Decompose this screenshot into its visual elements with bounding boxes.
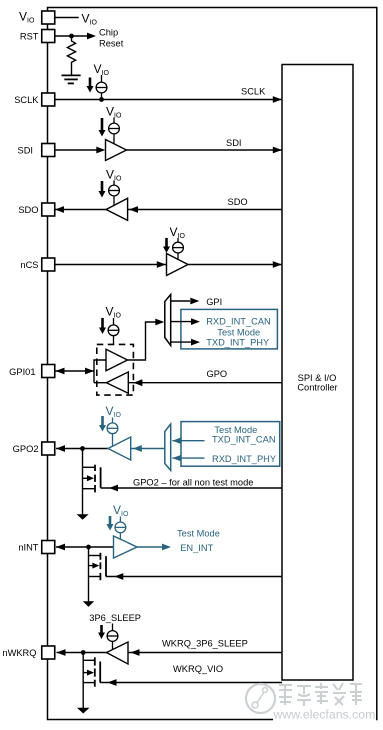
node junction nWKRQ [81, 650, 86, 655]
arrowhead into pin GPI01 [56, 368, 65, 375]
wire TXD_INT_PHY [171, 341, 192, 343]
pin RST [42, 30, 55, 43]
wire SDO from controller [128, 209, 282, 211]
transistor Q1 drain bus [82, 449, 84, 515]
wire GPI [171, 300, 190, 302]
arrowhead into U6 [133, 445, 142, 452]
arrowhead Q1 channel [87, 475, 94, 481]
current source I2 [109, 118, 120, 145]
arrowhead SDO into pin [55, 206, 64, 213]
svg-text:Test Mode: Test Mode [177, 529, 220, 539]
pin nWKRQ [42, 646, 55, 659]
arrowhead SCLK into controller [273, 96, 282, 103]
wire nWKRQ pin to buffer [57, 652, 107, 654]
node junction GPO2 [80, 446, 85, 451]
pin nINT [42, 541, 55, 554]
arrowhead SDI into controller [273, 147, 282, 154]
svg-text:nINT: nINT [18, 543, 38, 553]
buffer U4 [167, 254, 189, 276]
wire mux M2 to buffer U6 [131, 448, 165, 450]
svg-text:SDI: SDI [18, 145, 34, 155]
wire buffer input bus [94, 360, 106, 383]
svg-text:WKRQ_VIO: WKRQ_VIO [173, 664, 223, 674]
svg-text:GPI: GPI [206, 297, 222, 307]
arrowhead into buffer bus [85, 368, 94, 375]
arrowhead on gate wire [109, 485, 118, 492]
svg-text:Test Mode: Test Mode [217, 328, 260, 338]
buffer U7 (teal) [114, 536, 138, 558]
wire GPI01 bidirectional [56, 370, 95, 372]
svg-text:www.elecfans.com: www.elecfans.com [273, 708, 376, 722]
arrowhead EN_INT [162, 544, 171, 551]
current direction arrow I4 [165, 238, 168, 247]
arrowhead into buffer U3 [129, 206, 138, 213]
pin GPI01 [42, 365, 55, 378]
mux M1 [165, 295, 171, 346]
wire WKRQ_3P6_SLEEP [128, 652, 282, 654]
buffer U3 [106, 198, 128, 220]
buffer U5a [106, 349, 128, 370]
wire VIO pin to label [55, 17, 79, 19]
svg-text:Chip: Chip [99, 28, 118, 38]
wire WKRQ_VIO gate from controller [100, 682, 282, 684]
transistor Q1 [83, 465, 101, 493]
buffer U6 (teal) [108, 437, 131, 460]
svg-text:Controller: Controller [297, 383, 337, 393]
wire RST to chip reset [55, 35, 89, 37]
ground for Q1 [77, 514, 89, 520]
node junction SCLK [99, 97, 104, 102]
wire GPO2 gate from controller [101, 487, 282, 489]
svg-text:RXD_INT_PHY: RXD_INT_PHY [212, 454, 276, 464]
watermark chinese characters [279, 683, 362, 706]
svg-text:3P6_SLEEP: 3P6_SLEEP [89, 613, 141, 623]
current source I5 [108, 318, 119, 344]
blue box test mode GPO2 [181, 422, 280, 467]
resistor R1 [67, 36, 75, 75]
arrowhead into pin GPO2 [56, 445, 65, 452]
arrowhead GPO into dashed box [133, 379, 142, 386]
SPI & I/O Controller box U1 [282, 65, 353, 681]
buffer U5b [106, 372, 128, 393]
current source I3 [109, 181, 120, 206]
mux M2 (teal) [165, 424, 171, 471]
arrowhead mid nCS [157, 261, 166, 268]
current direction arrow I8 [100, 625, 103, 633]
arrowhead into pin nINT [56, 544, 65, 551]
ground for Q2 [83, 601, 94, 607]
svg-text:RXD_INT_CAN: RXD_INT_CAN [206, 316, 271, 326]
svg-text:SDI: SDI [226, 138, 242, 148]
pin GPO2 [42, 442, 55, 455]
pin SCLK [42, 93, 55, 106]
node junction RST [69, 34, 74, 39]
current direction arrow I2 [101, 118, 104, 131]
wire SDI from pin [55, 149, 99, 151]
ground for Q3 [77, 708, 90, 714]
svg-text:EN_INT: EN_INT [180, 543, 213, 553]
svg-text:WKRQ_3P6_SLEEP: WKRQ_3P6_SLEEP [162, 639, 248, 649]
wire U5b output to bus [94, 382, 106, 384]
buffer U2 [106, 140, 127, 161]
wire GPO from controller [128, 382, 282, 384]
current direction arrow I5 [101, 318, 104, 328]
buffer U8 [107, 642, 129, 664]
transistor Q2 drain bus [88, 547, 90, 602]
pin nCS [42, 258, 55, 271]
dashed box GPIO buffers [97, 344, 134, 395]
wire RXD_INT_CAN [171, 321, 192, 323]
current source I1 [96, 75, 107, 100]
arrowhead Q3 channel [87, 670, 94, 676]
wire SDI to controller [127, 149, 282, 151]
svg-text:GPI01: GPI01 [9, 367, 35, 377]
current direction arrow I3 [101, 181, 104, 192]
watermark logo circle [246, 684, 275, 713]
transistor Q3 drain bus [82, 653, 84, 709]
wire TXD_INT_CAN into mux [172, 440, 204, 442]
wire GPO2 pin to buffer [56, 448, 108, 450]
current source I8 [107, 624, 118, 650]
pin VIO [42, 11, 55, 24]
svg-text:RST: RST [20, 32, 39, 42]
pin SDI [42, 144, 55, 157]
svg-text:SCLK: SCLK [14, 95, 39, 105]
wire nCS from pin [55, 264, 167, 266]
wire SCLK [55, 99, 282, 101]
arrowhead TXD_INT_PHY [191, 339, 200, 346]
svg-text:GPO: GPO [207, 369, 228, 379]
svg-text:GPO2: GPO2 [13, 444, 39, 454]
wire EN_INT gate from controller [106, 576, 282, 578]
current source I7 (teal) [115, 517, 126, 540]
transistor Q2 [89, 553, 107, 580]
pin SDO [42, 203, 55, 216]
wire RXD_INT_PHY into mux [172, 457, 204, 459]
arrowhead into U8 [131, 649, 140, 656]
arrowhead into mux M1 [155, 319, 164, 326]
node junction nINT [86, 545, 91, 550]
ground (earth) for R1 [62, 74, 81, 76]
current direction arrow I1 [89, 78, 92, 88]
arrowhead nCS into controller [273, 261, 282, 268]
blue box test mode GPI [181, 309, 278, 349]
transistor Q3 [83, 657, 100, 686]
svg-text:SDO: SDO [18, 205, 38, 215]
arrowhead GPI [190, 298, 199, 305]
svg-text:SPI & I/O: SPI & I/O [298, 373, 337, 383]
wire EN_INT (teal) [137, 546, 163, 548]
arrowhead on Q2 gate wire [114, 573, 123, 580]
wire nCS to controller [188, 264, 282, 266]
arrowhead TXD_INT_CAN into mux [172, 437, 181, 444]
arrowhead into buffer [96, 147, 105, 154]
current source I4 [173, 238, 184, 260]
arrowhead Q2 channel [92, 563, 99, 569]
svg-text:TXD_INT_PHY: TXD_INT_PHY [206, 338, 269, 348]
svg-text:TXD_INT_CAN: TXD_INT_CAN [212, 435, 276, 445]
current source I6 (teal) [107, 418, 118, 447]
svg-text:SCLK: SCLK [241, 87, 266, 97]
svg-text:nCS: nCS [20, 260, 38, 270]
wire nINT pin to buffer [56, 546, 114, 548]
arrowhead into pin nWKRQ [57, 649, 66, 656]
wire SDO buffer to pin [55, 209, 106, 211]
svg-text:Reset: Reset [99, 39, 124, 49]
arrowhead RXD_INT_CAN [191, 318, 200, 325]
svg-text:SDO: SDO [228, 197, 248, 207]
current direction arrow I7 [109, 516, 112, 525]
arrowhead on Q3 gate wire [108, 679, 117, 686]
svg-text:GPO2 – for all non test mode: GPO2 – for all non test mode [133, 478, 253, 488]
wire U5a out up to mux [128, 322, 162, 360]
arrowhead RXD_INT_PHY into mux [172, 455, 181, 462]
chip reset arrow [87, 33, 96, 40]
current direction arrow I6 [101, 416, 104, 426]
svg-text:nWKRQ: nWKRQ [2, 648, 36, 658]
watermark url backing [273, 712, 376, 722]
